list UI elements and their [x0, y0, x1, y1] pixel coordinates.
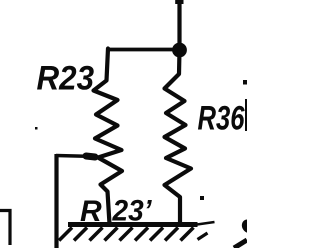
- svg-text:23’: 23’: [112, 195, 153, 228]
- wire tap vertical down to edge: [54, 154, 58, 248]
- tap arrow blob: [86, 156, 95, 157]
- speck near R36 bottom: [200, 196, 204, 200]
- wire top vertical feed: [177, 0, 181, 50]
- ground hatch 2: [74, 228, 87, 241]
- ground hatch 1: [59, 228, 72, 241]
- ground hatch 10: [198, 233, 208, 240]
- ground bar thin tail: [197, 222, 215, 225]
- wire tap on R23: [56, 156, 96, 157]
- partial shape bottom-right blob: [242, 220, 247, 233]
- svg-text:R: R: [80, 195, 102, 228]
- svg-text:R36: R36: [198, 100, 246, 138]
- ground hatch 3: [90, 228, 103, 241]
- ground hatch 8: [165, 228, 178, 241]
- ground hatch 4: [105, 228, 118, 241]
- ground bar: [68, 222, 198, 227]
- box corner bottom-left: [0, 211, 10, 246]
- wire horizontal to R23: [108, 48, 179, 52]
- partial shape bottom-right diagonal: [234, 240, 247, 248]
- resistor R36: [165, 50, 192, 224]
- wire top cap: [175, 0, 183, 4]
- ground hatch 6: [135, 228, 148, 241]
- ground hatch 7: [150, 228, 163, 241]
- svg-text:R23: R23: [37, 60, 95, 98]
- ground hatch 9: [181, 228, 194, 241]
- node junction dot: [172, 43, 187, 58]
- speck left mid: [35, 127, 38, 130]
- line right edge: [245, 99, 247, 131]
- dash right edge upper: [243, 80, 247, 85]
- resistor R23: [94, 49, 123, 225]
- ground hatch 5: [120, 228, 133, 241]
